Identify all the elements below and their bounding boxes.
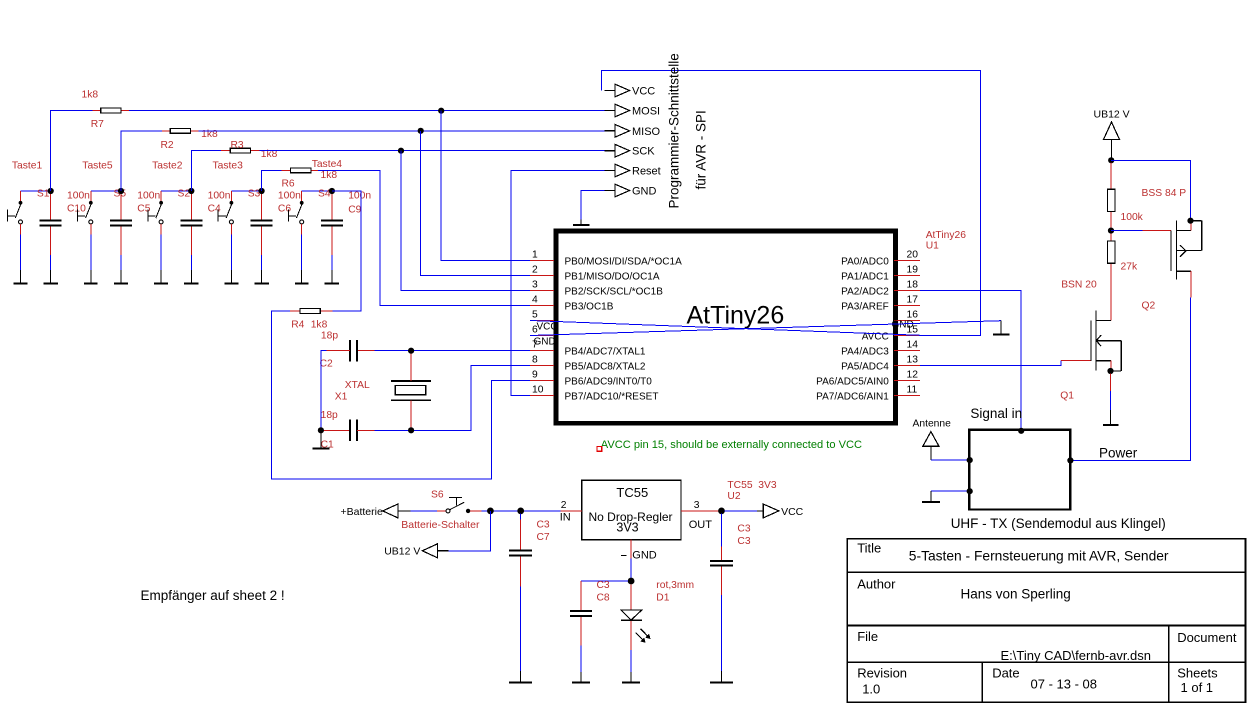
capacitor C8: [570, 581, 592, 672]
connector pin GND: [605, 184, 630, 197]
connector pin Reset: [605, 164, 630, 177]
svg-text:20: 20: [907, 250, 919, 261]
resistor 100k upper/lower leads: [1110, 163, 1112, 190]
svg-text:27k: 27k: [1121, 262, 1138, 273]
junction node MOSI/PB0: [438, 108, 444, 114]
wire S5 junction to R2 row: [121, 131, 162, 191]
S6 right contact: [466, 509, 470, 513]
transistor Q1 BSN20: [1091, 310, 1121, 371]
ground under S2: [154, 270, 168, 284]
svg-text:11: 11: [907, 385, 918, 396]
svg-text:Power: Power: [1099, 446, 1138, 461]
wire to pin 2 PB1: [421, 131, 530, 276]
svg-text:C7: C7: [537, 532, 550, 543]
svg-text:1k8: 1k8: [311, 319, 328, 330]
wire R7 to MOSI header: [129, 110, 604, 112]
wire VCC pin5 to AVCC pin15: [530, 321, 921, 336]
switch S5: [78, 191, 121, 270]
svg-text:3V3: 3V3: [616, 521, 638, 535]
capacitor C3 (output): [710, 514, 733, 672]
svg-text:Q2: Q2: [1142, 301, 1156, 312]
svg-text:IN: IN: [560, 511, 571, 523]
junction node GND/LED: [628, 578, 635, 585]
connector pin MOSI: [605, 104, 630, 117]
svg-text:GND: GND: [632, 550, 657, 562]
svg-text:C2: C2: [320, 359, 333, 370]
svg-text:PA3/AREF: PA3/AREF: [841, 301, 889, 312]
ground under C1: [313, 432, 330, 449]
wire S4 junction to R4: [332, 191, 361, 311]
junction node S5/C5: [118, 188, 124, 194]
capacitor C7: [509, 514, 532, 672]
ground under S5: [84, 270, 98, 284]
ground under C5: [114, 270, 128, 284]
svg-text:VCC: VCC: [632, 86, 655, 98]
svg-text:PB0/MOSI/DI/SDA/*OC1A: PB0/MOSI/DI/SDA/*OC1A: [565, 256, 683, 267]
junction node S3/C6: [259, 188, 265, 194]
wire OUT to VCC port: [725, 510, 758, 512]
svg-text:19: 19: [907, 265, 919, 276]
ground under D1: [622, 672, 640, 682]
capacitor C9: [321, 194, 343, 270]
svg-text:R2: R2: [161, 140, 174, 151]
junction node battery rail A: [487, 508, 494, 515]
svg-text:OUT: OUT: [689, 519, 713, 531]
power port +Batterie: [341, 504, 411, 518]
wire C2 to C1: [321, 351, 327, 431]
ground under C9: [325, 270, 339, 284]
antenna port: [923, 432, 939, 461]
svg-text:TC55: TC55: [616, 485, 648, 500]
capacitor C4: [180, 194, 202, 270]
svg-text:für AVR - SPI: für AVR - SPI: [694, 110, 709, 189]
ground under C4: [184, 270, 198, 284]
wire C1 to pin 8 PB5/XTAL2: [375, 366, 531, 431]
svg-text:Taste1: Taste1: [12, 161, 43, 172]
wire GND pin6 to ground right: [530, 321, 1001, 336]
pin 7 lead: [530, 350, 554, 352]
pin 2 IN lead: [561, 510, 582, 512]
wire gnd node to C8: [581, 580, 628, 582]
capacitor C2: [327, 340, 357, 362]
svg-text:5: 5: [532, 310, 538, 321]
pin 3 lead: [530, 290, 554, 292]
wire UHF gnd pin: [931, 490, 969, 492]
pin 10 lead: [530, 395, 554, 397]
svg-text:100n: 100n: [208, 191, 231, 202]
wire R3 to SCK header: [260, 150, 605, 152]
svg-text:U2: U2: [727, 491, 740, 502]
crystal X1: [391, 351, 431, 431]
svg-text:XTAL: XTAL: [345, 380, 370, 391]
svg-text:C4: C4: [208, 204, 221, 215]
svg-text:R3: R3: [231, 140, 244, 151]
junction node battery rail B: [517, 508, 524, 515]
pin 3 OUT lead: [681, 510, 719, 512]
svg-text:Taste3: Taste3: [213, 161, 244, 172]
ground under header GND: [573, 220, 590, 226]
pin 18 lead: [894, 290, 920, 292]
junction node antenna pin: [967, 457, 973, 463]
svg-text:100n: 100n: [348, 191, 371, 202]
ground under C6: [254, 270, 268, 284]
junction node Signal in: [1018, 428, 1024, 434]
resistor R6 leads: [282, 169, 291, 171]
ground under C10: [44, 270, 58, 284]
svg-text:C8: C8: [597, 593, 610, 604]
svg-text:1: 1: [532, 250, 538, 261]
svg-text:1k8: 1k8: [321, 170, 338, 181]
svg-text:C6: C6: [278, 204, 291, 215]
svg-text:3: 3: [532, 280, 538, 291]
svg-text:Programmier-Schnittstelle: Programmier-Schnittstelle: [667, 53, 682, 208]
wire Reset header to pin 10 PB7: [511, 171, 605, 396]
wire S2 junction to R3 row: [191, 151, 221, 191]
svg-text:17: 17: [907, 295, 919, 306]
svg-text:PB1/MISO/DO/OC1A: PB1/MISO/DO/OC1A: [565, 271, 660, 282]
svg-text:U1: U1: [926, 241, 939, 252]
svg-text:MOSI: MOSI: [632, 106, 660, 118]
wire S6 to regulator IN: [482, 510, 561, 512]
svg-text:100n: 100n: [278, 191, 301, 202]
svg-text:14: 14: [907, 340, 919, 351]
svg-text:R6: R6: [282, 179, 295, 190]
svg-text:X1: X1: [335, 392, 348, 403]
svg-text:C3: C3: [537, 520, 550, 531]
wire pin 7 PB4/XTAL1 to C2/XTAL node: [375, 350, 531, 352]
svg-text:PA0/ADC0: PA0/ADC0: [841, 256, 889, 267]
svg-text:PA4/ADC3: PA4/ADC3: [841, 346, 889, 357]
svg-text:C9: C9: [348, 204, 361, 215]
junction node SCK/PB2: [398, 148, 404, 154]
svg-text:Q1: Q1: [1060, 391, 1074, 402]
svg-text:9: 9: [532, 370, 538, 381]
switch S2: [148, 191, 191, 270]
junction node C1 left: [318, 427, 324, 433]
svg-text:Date: Date: [992, 666, 1019, 681]
svg-text:2: 2: [532, 265, 538, 276]
svg-text:2: 2: [561, 500, 567, 511]
wire to UB12V port: [449, 511, 491, 551]
svg-text:Title: Title: [857, 541, 881, 556]
switch S6 Batterie-Schalter: [446, 498, 464, 513]
svg-text:UHF - TX (Sendemodul aus Kling: UHF - TX (Sendemodul aus Klingel): [951, 516, 1166, 531]
capacitor C10: [40, 194, 62, 270]
svg-text:C3: C3: [737, 536, 750, 547]
Q2 gate lead: [1142, 230, 1171, 232]
resistor R? 100k: [1108, 189, 1115, 211]
LED D1: [621, 584, 642, 672]
svg-text:C5: C5: [137, 204, 150, 215]
wire R6 to pin 4 PB3: [318, 170, 530, 305]
svg-text:File: File: [857, 629, 878, 644]
svg-text:PA1/ADC1: PA1/ADC1: [841, 271, 889, 282]
svg-text:PA2/ADC2: PA2/ADC2: [841, 286, 889, 297]
wire antenna to UHF box: [931, 459, 969, 461]
svg-text:R4: R4: [291, 319, 304, 330]
svg-text:PB7/ADC10/*RESET: PB7/ADC10/*RESET: [565, 391, 659, 402]
title block frame: [847, 539, 1245, 702]
svg-text:10: 10: [532, 385, 544, 396]
svg-text:PA5/ADC4: PA5/ADC4: [841, 361, 889, 372]
svg-text:Reset: Reset: [632, 166, 661, 178]
svg-text:rot,3mm: rot,3mm: [656, 580, 694, 591]
svg-text:Author: Author: [857, 577, 896, 592]
svg-text:AtTiny26: AtTiny26: [926, 230, 967, 241]
pin 11 lead: [894, 395, 920, 397]
svg-text:Antenne: Antenne: [913, 419, 952, 430]
svg-text:TC55 3V3: TC55 3V3: [727, 480, 776, 491]
svg-text:Revision: Revision: [857, 666, 907, 681]
capacitor C6: [251, 194, 273, 270]
ground under S1: [14, 270, 28, 284]
svg-text:UB12 V: UB12 V: [1094, 109, 1130, 121]
svg-text:PB6/ADC9/INT0/T0: PB6/ADC9/INT0/T0: [565, 376, 653, 387]
svg-text:Taste5: Taste5: [82, 161, 113, 172]
pin 4 lead: [530, 305, 554, 307]
pin 17 lead: [894, 305, 920, 307]
junction node Q1 source: [1107, 368, 1113, 374]
connector pin SCK: [605, 144, 630, 157]
svg-text:E:\Tiny CAD\fernb-avr.dsn: E:\Tiny CAD\fernb-avr.dsn: [1001, 648, 1152, 663]
svg-text:UB12 V: UB12 V: [384, 546, 420, 558]
capacitor C1: [323, 420, 375, 442]
svg-text:PA6/ADC5/AIN0: PA6/ADC5/AIN0: [816, 376, 889, 387]
svg-text:Signal in: Signal in: [970, 406, 1022, 421]
svg-text:1 of 1: 1 of 1: [1181, 680, 1214, 695]
resistor R2: [170, 128, 190, 133]
pin 1 GND lead: [630, 540, 632, 559]
svg-text:SCK: SCK: [632, 146, 655, 158]
junction node VCC out: [718, 508, 725, 515]
svg-text:D1: D1: [656, 593, 669, 604]
svg-text:AVCC pin 15, should be externa: AVCC pin 15, should be externally connec…: [601, 439, 862, 451]
wire to pin 3 PB2: [401, 151, 530, 291]
svg-text:Hans von Sperling: Hans von Sperling: [961, 587, 1071, 602]
pin 16 lead: [894, 320, 920, 322]
wire to pin 1 PB0: [441, 111, 530, 261]
wire UB12 to Q2 source: [1111, 160, 1190, 218]
pin 19 lead: [894, 275, 920, 277]
svg-text:AtTiny26: AtTiny26: [687, 302, 785, 330]
svg-text:BSN 20: BSN 20: [1061, 280, 1097, 291]
ground under UHF: [922, 491, 940, 502]
wire S1 junction to R7 row: [51, 111, 93, 192]
ground right of IC: [993, 321, 1009, 335]
junction node MISO/PB1: [418, 128, 424, 134]
pin 1 lead: [530, 260, 554, 262]
svg-text:BSS 84 P: BSS 84 P: [1142, 188, 1187, 199]
pin 13 lead: [894, 365, 920, 367]
svg-text:18p: 18p: [321, 410, 338, 421]
wire gate node to Q2: [1111, 230, 1142, 232]
resistor R4: [300, 309, 320, 314]
junction node XTAL1: [408, 348, 414, 354]
svg-text:C3: C3: [737, 524, 750, 535]
wire Q1 source down: [1110, 374, 1112, 392]
junction node Power pin: [1067, 457, 1073, 463]
pin 14 lead: [894, 350, 920, 352]
capacitor C5: [110, 194, 132, 270]
pin 20 lead: [894, 260, 920, 262]
svg-text:MISO: MISO: [632, 126, 661, 138]
switch S1: [7, 191, 50, 270]
wire S3 junction to R6 row: [262, 170, 282, 191]
power port UB12 V bottom: [384, 544, 448, 558]
svg-text:12: 12: [907, 370, 919, 381]
svg-text:Batterie-Schalter: Batterie-Schalter: [401, 519, 480, 531]
junction node Q2 source: [1187, 218, 1193, 224]
svg-text:18p: 18p: [321, 331, 338, 342]
ground under Q1: [1103, 410, 1119, 425]
ground under C3: [710, 671, 733, 683]
svg-text:C3: C3: [597, 580, 610, 591]
pin number 1 tick: [621, 555, 627, 557]
pin 2 lead: [530, 275, 554, 277]
svg-text:C10: C10: [67, 204, 86, 215]
svg-text:PB3/OC1B: PB3/OC1B: [565, 301, 614, 312]
svg-text:+Batterie: +Batterie: [341, 506, 383, 518]
switch S3: [218, 191, 261, 270]
svg-text:Document: Document: [1177, 630, 1237, 645]
svg-text:Taste4: Taste4: [312, 159, 343, 170]
wire R4 to pin 9 PB6: [272, 311, 531, 479]
junction node Q2 gate: [1108, 228, 1114, 234]
S6 right lead: [470, 510, 481, 512]
power port UB12 V top: [1094, 109, 1130, 158]
svg-text:PB5/ADC8/XTAL2: PB5/ADC8/XTAL2: [565, 361, 646, 372]
svg-text:4: 4: [532, 295, 538, 306]
svg-text:GND: GND: [892, 320, 914, 331]
svg-text:3: 3: [694, 500, 700, 511]
wire pin 13 PA5 to Q1 gate: [920, 360, 1061, 365]
red origin marker: [597, 447, 602, 452]
resistor R7 leads: [93, 110, 101, 112]
junction node S2/C4: [188, 188, 194, 194]
junction node UHF gnd pin: [967, 488, 973, 494]
svg-text:13: 13: [907, 355, 919, 366]
pin 15 lead: [894, 335, 920, 337]
switch S4: [289, 191, 332, 270]
resistor R3: [230, 148, 250, 153]
svg-text:5-Tasten - Fernsteuerung mit A: 5-Tasten - Fernsteuerung mit AVR, Sender: [909, 549, 1169, 564]
svg-text:R7: R7: [91, 119, 104, 130]
wire Q2 drain to Power: [1070, 298, 1190, 461]
resistor R6: [291, 168, 311, 173]
ground under S4: [295, 270, 309, 284]
resistor R7: [101, 108, 121, 113]
junction node S4/C9: [329, 188, 335, 194]
pin 8 lead: [530, 365, 554, 367]
svg-text:PA7/ADC6/AIN1: PA7/ADC6/AIN1: [816, 391, 889, 402]
wire VCC rail header to AVCC: [602, 71, 981, 336]
svg-text:PB2/SCK/SCL/*OC1B: PB2/SCK/SCL/*OC1B: [565, 286, 664, 297]
svg-text:Sheets: Sheets: [1177, 666, 1218, 681]
pin 5 lead: [530, 320, 554, 322]
wire GND header: [581, 191, 605, 220]
capacitor C2 right lead: [357, 350, 375, 352]
Q1 gate lead: [1061, 359, 1091, 361]
svg-text:1k8: 1k8: [82, 90, 99, 101]
ground under C7: [509, 671, 532, 683]
svg-text:PB4/ADC7/XTAL1: PB4/ADC7/XTAL1: [565, 346, 646, 357]
LED D1 arrows: [636, 629, 651, 643]
junction node XTAL2: [408, 427, 414, 433]
pin 12 lead: [894, 380, 920, 382]
svg-text:VCC: VCC: [537, 322, 558, 333]
IC U1 AtTiny26 body: [556, 231, 896, 423]
svg-text:S6: S6: [431, 490, 444, 501]
resistor R4 leads: [320, 310, 332, 312]
svg-text:18: 18: [907, 280, 919, 291]
svg-text:07 - 13 - 08: 07 - 13 - 08: [1031, 677, 1098, 692]
resistor R2 leads: [162, 130, 170, 132]
wire R2 to MISO header: [199, 130, 605, 132]
svg-text:8: 8: [532, 355, 538, 366]
svg-text:1.0: 1.0: [862, 682, 880, 697]
svg-text:100n: 100n: [67, 191, 90, 202]
svg-text:VCC: VCC: [781, 506, 804, 518]
connector pin MISO: [605, 124, 630, 137]
power port VCC: [757, 504, 803, 518]
ground under S3: [225, 270, 239, 284]
svg-text:Empfänger auf sheet 2 !: Empfänger auf sheet 2 !: [141, 588, 285, 603]
svg-text:GND: GND: [534, 337, 556, 348]
junction node UB12: [1108, 157, 1114, 163]
module UHF-TX box: [969, 430, 1070, 510]
regulator U2 box: [582, 480, 681, 540]
junction node S1/C10: [48, 188, 54, 194]
svg-text:100k: 100k: [1121, 212, 1144, 223]
transistor Q2 BSS84P: [1171, 221, 1202, 298]
ground under C8: [572, 672, 590, 682]
resistor R? 27k: [1108, 241, 1115, 263]
pin 6 lead: [530, 335, 554, 337]
connector pin VCC: [605, 84, 630, 97]
pin 9 lead: [530, 380, 554, 382]
svg-text:GND: GND: [632, 186, 657, 198]
svg-text:Taste2: Taste2: [152, 161, 183, 172]
resistor R3 leads: [221, 150, 230, 152]
svg-text:100n: 100n: [137, 191, 160, 202]
wire +Batterie to S6: [411, 510, 437, 512]
wire pin 18 PA2 to UHF Signal: [920, 291, 1021, 431]
resistor 27k leads: [1110, 234, 1112, 242]
